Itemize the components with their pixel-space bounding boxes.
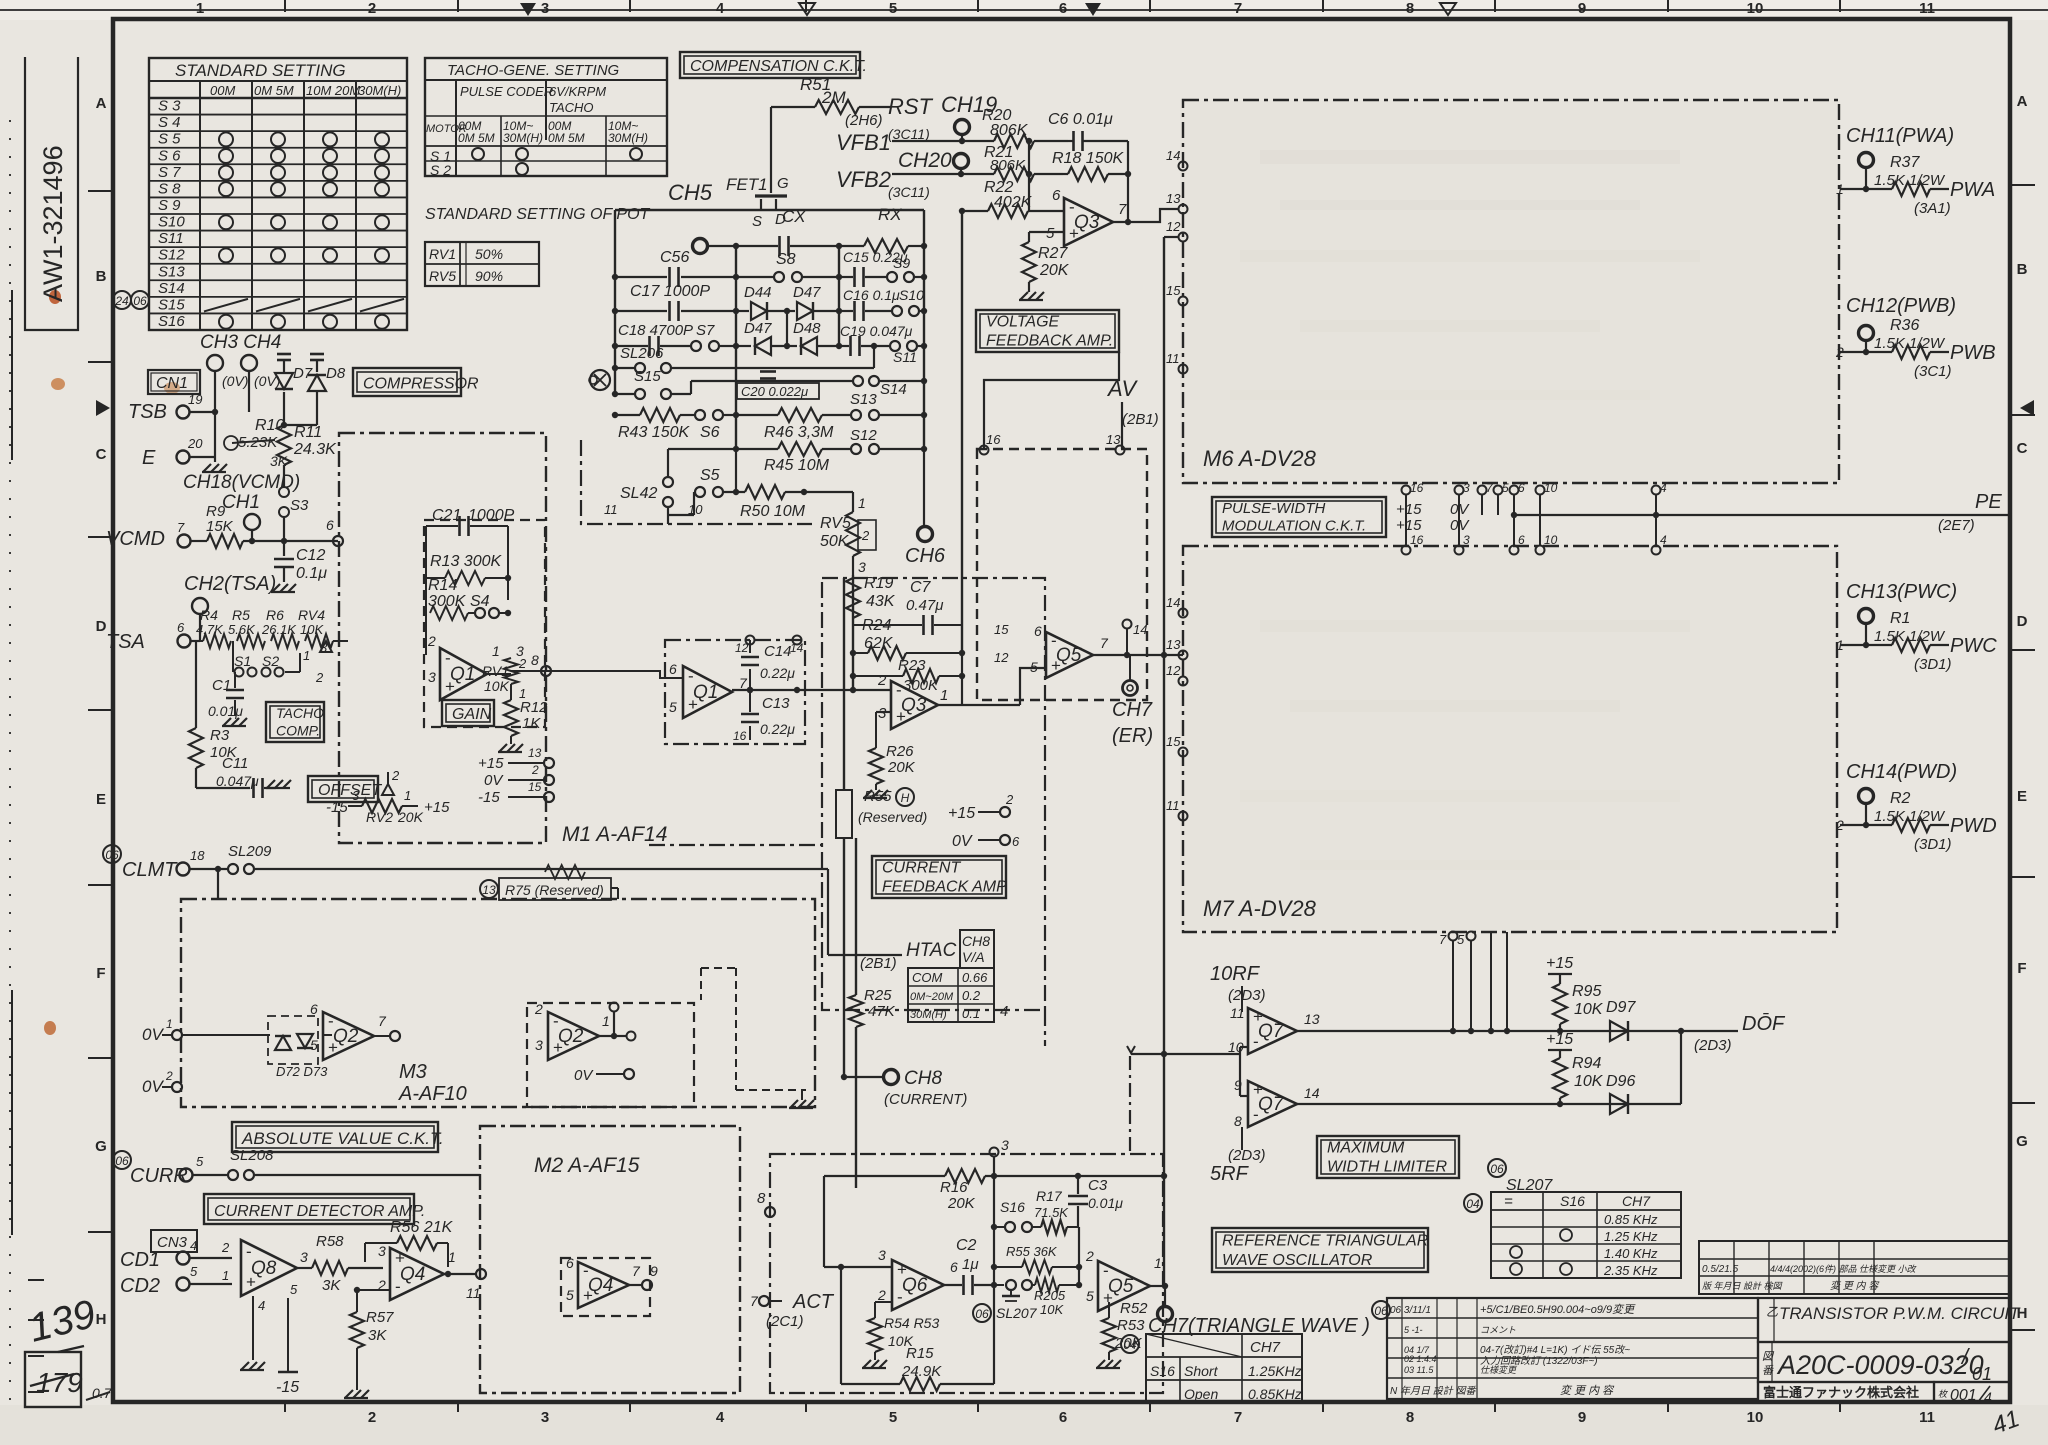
svg-text:3: 3 (1001, 1137, 1009, 1153)
svg-text:0M 5M: 0M 5M (254, 83, 294, 98)
transistor FET1 (726, 107, 789, 230)
M6 bottom pin row (1402, 481, 1668, 515)
svg-text:-: - (395, 1277, 401, 1296)
svg-text:20K: 20K (887, 759, 916, 776)
module box current feedback (822, 578, 1045, 1010)
svg-text:-: - (1253, 1105, 1259, 1124)
link SL209 (190, 843, 828, 955)
svg-text:C56: C56 (660, 249, 689, 266)
svg-text:F: F (2017, 960, 2026, 977)
title block revision table (1372, 1298, 1758, 1399)
label HTAC (2B1) (828, 940, 957, 972)
svg-text:13: 13 (528, 746, 542, 760)
M6 right edge stubs (0, 0, 1, 1)
module box Q4 right (561, 1258, 650, 1316)
svg-text:2: 2 (531, 763, 539, 777)
svg-text:06 3/11/1: 06 3/11/1 (1390, 1305, 1431, 1316)
svg-text:06: 06 (975, 1307, 989, 1321)
op-amp Q4 left (377, 1243, 456, 1300)
table CH7 S16 freq (1121, 1334, 1302, 1403)
terminal CD2 pin 5 (120, 1264, 232, 1297)
svg-text:7: 7 (739, 675, 748, 691)
svg-text:D7: D7 (293, 365, 313, 382)
wire Q3 output to M6 pin 13 (1113, 209, 1178, 222)
svg-text:D: D (96, 618, 107, 635)
switch S8 (736, 251, 842, 282)
svg-text:R55 36K: R55 36K (1006, 1244, 1058, 1259)
svg-text:(3D1): (3D1) (1914, 836, 1952, 853)
svg-text:20: 20 (187, 436, 203, 451)
wire TSB/E bus (212, 371, 281, 457)
link SL208 (193, 1147, 480, 1180)
op-amp Q6 (877, 1247, 958, 1310)
row letters left (88, 95, 113, 1328)
svg-text:7: 7 (378, 1013, 387, 1029)
svg-text:15: 15 (1166, 283, 1181, 298)
wire M6 pin12 branch (1164, 236, 1178, 238)
connector circles 24 06 (113, 291, 149, 309)
svg-text:(2D3): (2D3) (1228, 1147, 1266, 1164)
resistor R53 20K (1096, 1302, 1145, 1368)
svg-text:1μ: 1μ (962, 1256, 979, 1273)
resistor R75 reserved box (480, 865, 618, 900)
svg-text:0.01μ: 0.01μ (208, 703, 243, 719)
svg-text:R58: R58 (316, 1233, 344, 1250)
svg-text:0.1: 0.1 (962, 1006, 980, 1021)
svg-text:2M: 2M (821, 88, 846, 107)
svg-text:06: 06 (1490, 1162, 1504, 1176)
title ABSOLUTE VALUE CKT (232, 1122, 444, 1152)
title block sheet number (1934, 1382, 2010, 1405)
terminal ACT (750, 1291, 835, 1330)
row letters right (2010, 93, 2035, 1330)
svg-text:CH11(PWA): CH11(PWA) (1846, 125, 1954, 147)
svg-text:0V: 0V (142, 1025, 164, 1044)
resistor R10 crossed value (224, 417, 288, 469)
link SL207 contacts (973, 1280, 1038, 1322)
svg-text:PWB: PWB (1950, 342, 1996, 364)
wire osc pin 3 column (990, 1137, 1010, 1384)
switch S14 (853, 376, 927, 398)
svg-text:R1: R1 (1890, 610, 1910, 627)
handwritten sheet number 139 (25, 1292, 100, 1352)
title PULSE-WIDTH MODULATION CKT (1212, 497, 1386, 537)
svg-text:STANDARD SETTING OF POT: STANDARD SETTING OF POT (425, 206, 651, 223)
svg-text:-: - (246, 1242, 252, 1261)
svg-text:16: 16 (733, 729, 747, 743)
switch S16 resistor R17 71.5K (994, 1188, 1078, 1234)
svg-text:TACHO-GENE. SETTING: TACHO-GENE. SETTING (447, 62, 620, 79)
svg-text:0.01μ: 0.01μ (1088, 1195, 1123, 1211)
svg-text:CD2: CD2 (120, 1275, 160, 1297)
svg-text:0M 5M: 0M 5M (548, 131, 585, 145)
svg-text:S 8: S 8 (158, 180, 181, 197)
svg-text:3K: 3K (368, 1327, 387, 1344)
svg-text:WAVE OSCILLATOR: WAVE OSCILLATOR (1222, 1252, 1373, 1269)
svg-text:16: 16 (986, 432, 1001, 447)
svg-text:(3C1): (3C1) (1914, 363, 1952, 380)
test point CH18 CH1 (183, 472, 300, 530)
svg-text:版 年月日 設計 検図: 版 年月日 設計 検図 (1702, 1281, 1784, 1291)
svg-text:D47: D47 (793, 284, 821, 301)
output PWC R1 (1836, 581, 1997, 673)
svg-text:+15: +15 (1396, 501, 1422, 518)
svg-text:03 11.5: 03 11.5 (1404, 1365, 1434, 1375)
table CH8 V/A (908, 930, 1008, 1022)
svg-text:15: 15 (1166, 734, 1181, 749)
svg-text:C11: C11 (222, 755, 248, 772)
svg-text:6V/KRPM: 6V/KRPM (549, 84, 606, 99)
svg-text:5: 5 (1086, 1288, 1094, 1304)
alignment arrow right (2020, 400, 2034, 416)
svg-text:CH7: CH7 (1622, 1193, 1651, 1209)
wire Q7 upper output (1297, 1030, 1681, 1032)
svg-text:9: 9 (1578, 0, 1586, 17)
capacitor C6 0.01u (1048, 111, 1128, 151)
svg-text:8: 8 (757, 1190, 766, 1207)
svg-text:0.1μ: 0.1μ (296, 565, 327, 582)
pin 14 stub Q5 (1123, 620, 1148, 656)
wire PE line (1511, 491, 2008, 534)
svg-text:50K: 50K (820, 533, 850, 550)
svg-text:001: 001 (1950, 1387, 1977, 1404)
svg-text:ACT: ACT (792, 1291, 835, 1313)
svg-text:30M(H): 30M(H) (503, 131, 543, 145)
resistor R16 20K (824, 1169, 1167, 1212)
svg-text:(Reserved): (Reserved) (858, 809, 927, 825)
module boundary link M1 to CFA (649, 844, 822, 846)
svg-text:V/A: V/A (962, 949, 985, 965)
svg-text:OFFSET: OFFSET (318, 782, 382, 799)
op-amp Q8 (241, 1240, 308, 1313)
svg-text:F: F (96, 965, 105, 982)
resistor R11 24.3K (277, 392, 337, 541)
svg-text:+: + (246, 1273, 256, 1292)
svg-text:3: 3 (378, 1243, 386, 1259)
resistor R12 1K (498, 699, 548, 752)
svg-text:3: 3 (878, 705, 887, 722)
svg-text:Open: Open (1184, 1386, 1218, 1402)
capacitor C12 0.1u (271, 541, 327, 592)
alignment arrow left (96, 400, 110, 416)
svg-text:STANDARD SETTING: STANDARD SETTING (175, 61, 346, 80)
svg-text:5: 5 (290, 1282, 298, 1297)
switch S15 row (612, 368, 852, 399)
margin dash edge (10, 120, 44, 1400)
wire VFB2 (836, 167, 994, 200)
svg-text:0.47μ: 0.47μ (906, 597, 943, 614)
svg-text:1: 1 (196, 0, 204, 17)
svg-text:CLMT: CLMT (122, 859, 178, 881)
op-amp Q7 upper (1228, 1005, 1320, 1055)
svg-text:S16: S16 (158, 313, 185, 330)
svg-text:E: E (96, 791, 106, 808)
svg-text:5: 5 (566, 1287, 574, 1303)
svg-text:+: + (1051, 656, 1061, 675)
alignment arrow top open 8 (1440, 3, 1456, 15)
svg-text:乙: 乙 (1766, 1305, 1778, 1319)
svg-text:VCMD: VCMD (106, 528, 165, 550)
svg-text:R95: R95 (1572, 983, 1601, 1000)
svg-text:6: 6 (566, 1255, 574, 1271)
svg-text:-: - (1069, 197, 1075, 216)
capacitor C1 0.01u (208, 641, 247, 726)
svg-text:14: 14 (1166, 148, 1180, 163)
svg-text:5: 5 (889, 0, 897, 17)
svg-text:HTAC: HTAC (906, 940, 957, 961)
resistor R25 47K (849, 838, 896, 1188)
svg-text:4/4/4(2002)(6件) 部品 仕様変更 小改: 4/4/4(2002)(6件) 部品 仕様変更 小改 (1770, 1264, 1918, 1274)
svg-text:+: + (688, 695, 698, 714)
title block company (1758, 1382, 1934, 1402)
test point CH20 (898, 149, 969, 177)
pot RV5 50K (820, 492, 876, 575)
svg-text:S1: S1 (234, 653, 251, 669)
svg-text:2: 2 (861, 528, 870, 543)
capacitor C3 0.01u (1068, 1173, 1123, 1227)
svg-text:COMP.: COMP. (276, 723, 320, 739)
svg-text:3: 3 (541, 0, 549, 17)
svg-text:14: 14 (1166, 595, 1180, 610)
wire M3 internal (240, 899, 332, 1035)
svg-text:+: + (1069, 224, 1079, 243)
module box M7 A-DV28 (1183, 546, 1837, 932)
wire compensation top rail (615, 210, 924, 449)
svg-text:-: - (445, 649, 451, 668)
svg-text:0.66: 0.66 (962, 970, 988, 985)
label AV (2B1) (1106, 376, 1159, 449)
svg-text:6: 6 (1059, 0, 1067, 17)
diode bridge D72 D73 (268, 1016, 328, 1079)
svg-text:3: 3 (320, 640, 328, 655)
ground TSB (202, 457, 227, 472)
terminal VCMD pin 7 (106, 520, 207, 550)
svg-text:13: 13 (1304, 1011, 1320, 1027)
title CURRENT DETECTOR AMP (204, 1194, 425, 1224)
test point CH8 current (841, 1068, 968, 1108)
capacitor C21 1000P (426, 507, 515, 655)
alignment arrow top 3 (520, 3, 536, 16)
svg-text:S10: S10 (899, 287, 924, 303)
label CH7 TRIANGLE WAVE (1148, 1315, 1370, 1337)
svg-text:3: 3 (1463, 481, 1470, 495)
ruler numbers top (196, 0, 1935, 17)
op-amp Q5 osc (1085, 1248, 1162, 1311)
svg-text:24: 24 (114, 294, 129, 308)
svg-text:R17: R17 (1036, 1188, 1063, 1204)
svg-text:TACHO: TACHO (276, 705, 324, 721)
svg-text:10: 10 (688, 502, 703, 517)
svg-text:Short: Short (1184, 1363, 1219, 1379)
svg-text:S 3: S 3 (158, 98, 181, 115)
svg-text:RV1: RV1 (429, 246, 456, 262)
M6 left pins (1166, 148, 1188, 374)
resistor R95 10K (1546, 955, 1604, 1034)
op-amp Q3 voltage feedback (1046, 187, 1127, 246)
capacitor C2 1u (944, 1237, 994, 1295)
table TACHO-GENE SETTING (425, 58, 667, 178)
svg-text:+15: +15 (948, 805, 975, 822)
svg-text:R55: R55 (864, 788, 892, 805)
test point CH19 (941, 92, 997, 144)
svg-text:7: 7 (632, 1263, 641, 1279)
svg-text:0.22μ: 0.22μ (760, 665, 795, 681)
terminal E pin 20 (142, 436, 215, 469)
test point CH6 (905, 449, 946, 567)
svg-text:G: G (95, 1138, 107, 1155)
svg-text:S8: S8 (776, 251, 796, 268)
title CURRENT FEEDBACK AMP (872, 856, 1007, 898)
svg-text:-: - (897, 1288, 903, 1307)
svg-text:VFB1: VFB1 (836, 130, 891, 155)
svg-text:4: 4 (716, 1409, 725, 1426)
capacitor C20 0.022u (737, 372, 819, 400)
svg-text:CH3 CH4: CH3 CH4 (200, 332, 281, 353)
capacitor C17 1000P (612, 283, 739, 321)
resistor R45 10M (668, 442, 850, 474)
svg-text:0.2: 0.2 (962, 988, 981, 1003)
svg-text:C13: C13 (762, 695, 790, 712)
svg-text:+15: +15 (424, 799, 450, 816)
svg-text:C12: C12 (296, 547, 325, 564)
capacitor C18 4700P switch S7 (612, 322, 739, 356)
switch S12 (850, 427, 927, 454)
svg-text:R10: R10 (255, 417, 284, 434)
svg-text:S 7: S 7 (158, 164, 181, 181)
svg-text:E: E (2017, 788, 2027, 805)
svg-text:2: 2 (165, 1069, 173, 1083)
op-amp Q1 gain (427, 633, 524, 700)
svg-text:R19: R19 (864, 575, 893, 592)
svg-text:+15: +15 (1396, 517, 1422, 534)
svg-text:1000P: 1000P (468, 507, 515, 524)
svg-text:3: 3 (1463, 533, 1470, 547)
module box M2 A-AF15 (480, 1126, 740, 1393)
svg-text:S14: S14 (158, 280, 185, 297)
resistor R27 20K (1022, 232, 1070, 282)
svg-text:0V: 0V (952, 833, 973, 850)
capacitor C15 0.22u switch S9 (839, 249, 927, 287)
svg-text:11: 11 (604, 502, 618, 517)
output PWD R2 (1835, 761, 1997, 853)
svg-text:2: 2 (368, 0, 376, 17)
wire CLMT drop (215, 866, 221, 899)
svg-text:6: 6 (1518, 481, 1525, 495)
svg-text:15: 15 (528, 780, 542, 794)
svg-text:3: 3 (352, 788, 360, 803)
svg-text:S14: S14 (880, 381, 907, 398)
svg-text:50%: 50% (475, 246, 503, 262)
svg-text:(2B1): (2B1) (1122, 411, 1159, 428)
svg-text:+5/C1/BE0.5H90.004~o9/9変更: +5/C1/BE0.5H90.004~o9/9変更 (1480, 1303, 1636, 1316)
svg-text:47K: 47K (868, 1003, 896, 1020)
svg-text:R23: R23 (898, 657, 926, 674)
svg-text:+: + (445, 677, 455, 696)
wire Q5 output to M7 (1093, 652, 1183, 658)
svg-text:CH5: CH5 (668, 180, 713, 205)
svg-text:04: 04 (1466, 1197, 1480, 1211)
terminal CLMT pin 18 (103, 845, 205, 881)
svg-text:R37: R37 (1890, 154, 1920, 171)
alignment arrow top 6 (1085, 3, 1101, 16)
svg-text:8: 8 (1406, 0, 1414, 17)
module box Q2 right (527, 1003, 694, 1107)
svg-text:(3D1): (3D1) (1914, 656, 1952, 673)
resistor R54 10K (862, 1302, 939, 1368)
resistor R21 806K (984, 144, 1063, 181)
wire main column x853 (850, 575, 856, 690)
switches S1 S2 (233, 640, 328, 685)
svg-text:R94: R94 (1572, 1055, 1601, 1072)
svg-text:02 1.4.4: 02 1.4.4 (1404, 1354, 1437, 1364)
svg-text:(2B1): (2B1) (860, 955, 897, 972)
title block drawing number (1758, 1342, 2010, 1384)
svg-text:COM: COM (912, 970, 943, 985)
svg-text:S15: S15 (634, 368, 661, 385)
svg-text:CH1: CH1 (222, 492, 260, 513)
svg-text:30M(H): 30M(H) (910, 1009, 947, 1021)
svg-text:5: 5 (196, 1154, 204, 1169)
handwritten mark bottom right (1989, 1405, 2023, 1440)
svg-text:24.9K: 24.9K (901, 1363, 942, 1380)
svg-text:C2: C2 (956, 1237, 977, 1254)
switch S5 resistor R50 10M (668, 449, 853, 520)
svg-text:3: 3 (858, 559, 866, 575)
svg-text:2: 2 (534, 1001, 543, 1017)
resistor R15 24.9K feedback (841, 1267, 994, 1391)
svg-text:変 更 内 容: 変 更 内 容 (1830, 1280, 1880, 1292)
svg-text:富士通ファナック株式会社: 富士通ファナック株式会社 (1763, 1385, 1919, 1400)
svg-text:(0V): (0V) (222, 373, 248, 389)
svg-text:+: + (583, 1286, 593, 1305)
svg-text:RV2: RV2 (366, 809, 393, 825)
svg-text:12: 12 (1166, 663, 1181, 678)
svg-text:RV4: RV4 (298, 607, 325, 623)
table RV1 RV5 pot setting (425, 242, 539, 286)
svg-text:6: 6 (326, 517, 334, 533)
svg-text:0.5/21.5: 0.5/21.5 (1702, 1264, 1739, 1275)
svg-text:CH8: CH8 (904, 1068, 942, 1089)
svg-text:R43 150K: R43 150K (618, 424, 690, 441)
connector CN1 (148, 370, 200, 394)
svg-text:6: 6 (1034, 623, 1042, 639)
wire VFB2 long vertical (959, 208, 965, 653)
svg-text:R205: R205 (1034, 1288, 1066, 1303)
handwritten box 179 (25, 1352, 113, 1407)
svg-text:5: 5 (1502, 481, 1509, 495)
svg-text:D: D (2017, 613, 2028, 630)
svg-text:SL206: SL206 (620, 345, 664, 362)
svg-text:6: 6 (1012, 834, 1020, 849)
svg-text:R16: R16 (940, 1179, 968, 1196)
svg-text:-: - (583, 1261, 589, 1280)
wire M1 supply pins (478, 746, 554, 806)
svg-text:PWC: PWC (1950, 635, 1997, 657)
link SL42 (620, 449, 673, 524)
wire Q6 input rail (824, 1176, 892, 1270)
svg-text:0V: 0V (1450, 517, 1470, 534)
svg-text:9: 9 (1578, 1409, 1586, 1426)
svg-text:A: A (2017, 93, 2028, 110)
svg-text:S 9: S 9 (158, 197, 181, 214)
svg-text:1.25KHz: 1.25KHz (1248, 1363, 1302, 1379)
svg-text:0V: 0V (1450, 501, 1470, 518)
svg-text:S 4: S 4 (158, 114, 181, 131)
svg-text:2: 2 (315, 670, 324, 685)
svg-text:10RF: 10RF (1210, 963, 1261, 985)
svg-text:4: 4 (258, 1298, 265, 1313)
svg-text:S3: S3 (290, 497, 309, 514)
